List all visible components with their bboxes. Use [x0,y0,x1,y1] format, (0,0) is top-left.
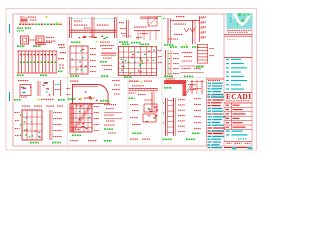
svg-text:ECADI: ECADI [226,93,251,101]
